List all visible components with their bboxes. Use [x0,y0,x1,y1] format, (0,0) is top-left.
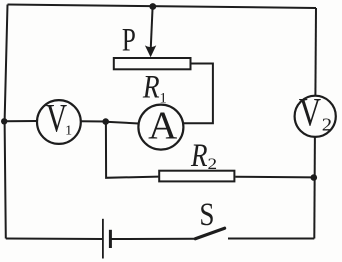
svg-text:R: R [142,68,160,105]
svg-text:P: P [122,23,136,59]
svg-text:R: R [190,136,207,173]
svg-text:S: S [199,197,214,233]
svg-text:V: V [299,90,321,135]
svg-text:A: A [148,102,177,147]
svg-text:V: V [46,96,67,140]
svg-text:2: 2 [208,154,218,172]
svg-text:1: 1 [65,124,72,139]
svg-text:2: 2 [322,116,332,135]
